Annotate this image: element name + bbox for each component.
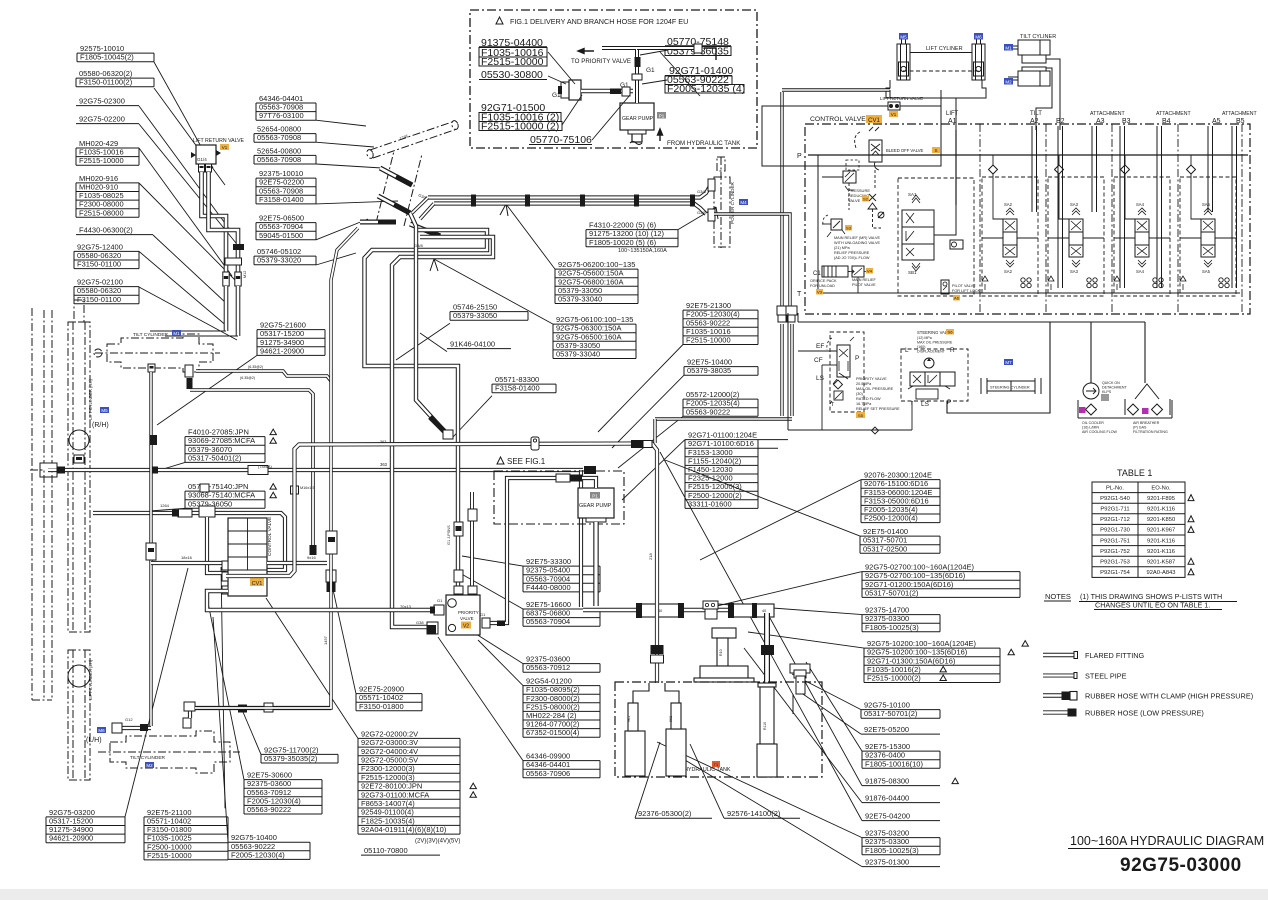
x782 fit [777, 306, 787, 315]
pipe hose v1 right [209, 172, 239, 272]
svg-text:91K46-04100: 91K46-04100 [450, 340, 495, 349]
svg-text:P1: P1 [592, 493, 598, 498]
wire SA2 hline2 [1017, 237, 1038, 239]
svg-text:94621-20900: 94621-20900 [260, 346, 304, 355]
svg-text:G3/8: G3/8 [697, 210, 706, 215]
pipe hose v1 left [202, 172, 227, 272]
f1 fit4 [622, 87, 630, 96]
svg-text:RUBBER HOSE WITH CLAMP (HIGH P: RUBBER HOSE WITH CLAMP (HIGH PRESSURE) [1085, 692, 1253, 701]
fitting f1 fit3 [558, 86, 562, 94]
svg-text:STEERING CYLINDER: STEERING CYLINDER [990, 386, 1030, 390]
svg-text:P92G1-753: P92G1-753 [1100, 560, 1130, 566]
svg-text:05379-33040: 05379-33040 [558, 295, 602, 304]
pipe pipe x150 [149, 372, 152, 726]
tee x207 [199, 506, 215, 517]
tilt cylinder schematic [1008, 40, 1050, 86]
wire sa1 to a1 [934, 205, 956, 235]
svg-text:9201-K850: 9201-K850 [1147, 517, 1175, 523]
svg-text:(6.35@2): (6.35@2) [240, 376, 255, 380]
hose fitting hf1 [380, 168, 412, 185]
wire f1 leader6 [642, 80, 667, 84]
pipe pipe y513 [93, 513, 285, 570]
fitting f1 hose blk [610, 89, 621, 95]
svg-text:FOR LIFT LOCK: FOR LIFT LOCK [952, 289, 981, 293]
svg-text:STEEL PIPE: STEEL PIPE [1085, 672, 1127, 681]
svg-text:05379-33050: 05379-33050 [453, 311, 497, 320]
extended underlines for 92G71-01100 rows [758, 439, 788, 441]
fitting coupler blk [148, 548, 154, 552]
badge M1 badge [172, 330, 181, 336]
warning triangle table tri 1 [1188, 495, 1194, 501]
svg-text:MAIN RELIEF: MAIN RELIEF [852, 278, 877, 282]
svg-text:05563-90222: 05563-90222 [686, 407, 730, 416]
svg-text:FLARED FITTING: FLARED FITTING [1085, 651, 1145, 660]
svg-text:92A0-A843: 92A0-A843 [1146, 570, 1175, 576]
svg-text:59045-01500: 59045-01500 [259, 231, 303, 240]
wire f1 leader3 [562, 95, 582, 125]
warning triangle table tri 3 [1188, 516, 1194, 522]
svg-text:T: T [797, 291, 802, 298]
svg-text:SA4: SA4 [1136, 269, 1145, 274]
svg-text:P: P [855, 355, 859, 362]
svg-text:(12) MPa: (12) MPa [917, 336, 932, 340]
svg-text:92E72-80100:JPN: 92E72-80100:JPN [361, 782, 422, 791]
svg-text:S: S [934, 148, 937, 153]
wire SA3 hline2 [1083, 237, 1104, 239]
pipe upipe1 [365, 230, 488, 592]
wire SA2 check down [993, 174, 1003, 219]
pipe hoses continue [224, 286, 229, 331]
svg-text:05379-33020: 05379-33020 [257, 256, 301, 265]
svg-text:20.5MPa: 20.5MPa [856, 382, 872, 386]
svg-text:FIG.1 DELIVERY AND BRANCH HOSE: FIG.1 DELIVERY AND BRANCH HOSE FOR 1204F… [510, 17, 688, 26]
wire B4 line b [1161, 126, 1163, 288]
wire SA5 hline2 [1215, 237, 1236, 239]
hydraulic tank outline [615, 682, 822, 777]
badge CV1 badge [250, 578, 264, 586]
svg-text:R10: R10 [719, 649, 723, 656]
label 92376-05300(2) [635, 742, 712, 818]
svg-text:C1: C1 [813, 271, 821, 277]
svg-text:L: L [905, 347, 909, 354]
label 92G75-21600 [157, 321, 325, 425]
fitting hoseA blk top [187, 378, 193, 389]
label 92G54-01200 [478, 640, 600, 737]
svg-text:FILTRATION RATING: FILTRATION RATING [1133, 430, 1168, 434]
svg-text:F1805-10016(10): F1805-10016(10) [865, 759, 923, 768]
fitting tee y470 [40, 463, 57, 469]
warning triangle table tri 8 [1188, 569, 1194, 575]
label 05572-12000(2) [618, 390, 758, 468]
wire a1 down [955, 249, 957, 293]
f1 fit5 [694, 44, 702, 53]
svg-text:ORIFICE PACK: ORIFICE PACK [810, 279, 837, 283]
svg-text:R110: R110 [763, 722, 767, 730]
svg-text:P: P [797, 153, 802, 160]
svg-text:9x16: 9x16 [307, 555, 316, 560]
wire SA3 check line [1058, 155, 1060, 165]
svg-text:05317-02500: 05317-02500 [863, 544, 907, 553]
m16 fit [291, 486, 299, 494]
svg-text:LS: LS [816, 375, 825, 382]
wire SA3 hline [1048, 237, 1069, 239]
wire mrp down [857, 277, 859, 293]
svg-text:33311-01600: 33311-01600 [688, 499, 732, 508]
pipe pipe x792 lower [790, 324, 793, 416]
badge mrp badge [866, 268, 873, 274]
svg-text:LIFT CYLINDER (LH): LIFT CYLINDER (LH) [88, 659, 93, 700]
svg-text:05563-90222: 05563-90222 [247, 805, 291, 814]
pipe pipe y610 [207, 591, 437, 610]
svg-text:TILT CYLINDER: TILT CYLINDER [130, 755, 166, 761]
svg-text:RELIEF PRESSURE: RELIEF PRESSURE [834, 251, 870, 255]
svg-text:V3: V3 [817, 289, 823, 294]
svg-text:LS: LS [921, 401, 930, 408]
hose fitting hf3 [360, 220, 396, 225]
pipe main pipe y203 [434, 204, 706, 215]
svg-text:DISPLACEMENT: DISPLACEMENT [917, 350, 946, 354]
label 92G75-10200 [748, 632, 1028, 683]
tilt port a [148, 364, 155, 372]
valve section SA5 [1201, 219, 1215, 257]
wire dash line left0 [31, 308, 33, 700]
priority valve EF/CF schematic [827, 337, 854, 384]
wire lrv down [955, 98, 957, 106]
valve section SA4 [1135, 219, 1149, 257]
clamp tag on y443 [531, 437, 539, 450]
svg-text:RELIEF SET PRESSURE: RELIEF SET PRESSURE [856, 407, 900, 411]
wire main P riser [798, 321, 1145, 323]
svg-text:(74x6A): (74x6A) [258, 464, 273, 469]
x472 fit1 [468, 509, 477, 521]
label F4310-22000 [586, 207, 716, 247]
svg-text:SA5: SA5 [1202, 269, 1211, 274]
svg-text:VALVE: VALVE [848, 198, 861, 203]
legend rubber hose low pressure [1043, 709, 1076, 716]
svg-text:V1: V1 [222, 145, 228, 150]
svg-text:TILT: TILT [1030, 111, 1042, 117]
pipe pipe x472 [470, 492, 474, 592]
svg-text:PILOT VALVE: PILOT VALVE [952, 284, 976, 288]
label 91K46-04100 [420, 333, 511, 352]
svg-text:SA2: SA2 [1004, 202, 1013, 207]
lift return valve V1 [196, 145, 216, 164]
label 92E75-16600 [458, 572, 600, 626]
wire lift dashed [903, 70, 979, 72]
coupler M62 [326, 531, 337, 554]
svg-text:GEAR PUMP: GEAR PUMP [579, 503, 612, 509]
wire SA2 hline [982, 237, 1003, 239]
svg-text:TILT CYLINER: TILT CYLINER [1020, 34, 1056, 40]
pipe pipe tilt lh [190, 708, 331, 718]
svg-text:G1/4: G1/4 [197, 157, 207, 162]
wire A1 line [955, 130, 957, 205]
wire hose elbow left [150, 330, 226, 332]
svg-text:WITH UNLOADING VALVE: WITH UNLOADING VALVE [834, 241, 881, 245]
return filter [757, 683, 777, 777]
y443 fit [643, 441, 652, 448]
legend rubber hose high pressure [1043, 692, 1077, 701]
svg-text:F1825-10035(4): F1825-10035(4) [361, 816, 415, 825]
legend flared fitting [1043, 652, 1078, 659]
svg-text:M6: M6 [98, 728, 105, 733]
cv port2 [222, 572, 228, 581]
label 92G75-03200 [46, 568, 188, 843]
wire notes2 ul [1094, 609, 1222, 611]
badge M2 badge [145, 762, 154, 768]
wire A5 line b [1212, 126, 1214, 212]
arrow from hydraulic tank [658, 129, 663, 141]
svg-text:SB1: SB1 [908, 270, 917, 275]
wire dashdot v980 [979, 124, 981, 314]
wire notes1 ul [1079, 601, 1237, 603]
wire dashdot v1242 [1241, 124, 1243, 314]
fitting f1 vert blk [635, 57, 641, 67]
pipe hose3 [410, 213, 447, 434]
x331 fit2 [326, 570, 336, 582]
svg-text:A6: A6 [954, 295, 960, 300]
fitting fit y470 b [150, 467, 158, 474]
svg-text:FOR UNLOAD: FOR UNLOAD [810, 284, 835, 288]
wire riser to breather [1144, 322, 1146, 383]
svg-text:KLPS: KLPS [1102, 390, 1112, 394]
wire SA5 check down [1191, 174, 1201, 219]
svg-text:05563-70908: 05563-70908 [257, 155, 301, 164]
label 92G75-02100 [74, 278, 237, 340]
svg-text:(160): (160) [917, 345, 925, 349]
svg-text:LIFT: LIFT [946, 111, 959, 117]
wire B2 line b [1062, 126, 1064, 288]
svg-text:M1: M1 [173, 331, 180, 336]
svg-text:PL-No.: PL-No. [1106, 485, 1124, 491]
svg-text:92G75-02300: 92G75-02300 [79, 97, 125, 106]
badge M badge rh [100, 407, 109, 413]
pilot valve lift lock [941, 280, 949, 294]
svg-text:S2: S2 [863, 196, 869, 201]
label 92375-03200 r [657, 742, 940, 855]
valve section SA3 [1069, 219, 1083, 257]
svg-text:CONTROL VALVE: CONTROL VALVE [810, 116, 866, 123]
wire A3 line b [1096, 126, 1098, 212]
badge lift badge 1 [899, 33, 908, 40]
svg-text:92376-05300(2): 92376-05300(2) [638, 809, 692, 818]
wire dash line left1 [43, 310, 45, 700]
svg-text:M7: M7 [1005, 360, 1012, 365]
lift cylinder R/H [68, 300, 90, 632]
svg-text:16.7MPa: 16.7MPa [856, 402, 872, 406]
svg-text:F1805-10020 (5) (6): F1805-10020 (5) (6) [589, 238, 657, 247]
label 92575-10010 [77, 44, 213, 168]
wire hose elbow right [165, 335, 238, 337]
wire A2 line b [1036, 126, 1038, 212]
fitting sv blk [761, 645, 774, 655]
badge V2 badge [461, 622, 471, 629]
badge c1 badge [816, 289, 823, 295]
svg-text:TO PRIORITY VALVE: TO PRIORITY VALVE [571, 58, 631, 65]
label 05580-06320(2) [76, 69, 225, 185]
label 92E75-10400 [612, 358, 758, 448]
coupler x150 [146, 543, 156, 560]
label 92076-20300 [700, 471, 940, 560]
svg-text:05563-70912: 05563-70912 [526, 663, 570, 672]
svg-text:HYDRAULIC TANK: HYDRAULIC TANK [684, 767, 731, 773]
svg-text:P92G1-712: P92G1-712 [1100, 517, 1130, 523]
label 91876-04400 [744, 648, 940, 803]
svg-text:MAX OIL PRESSURE: MAX OIL PRESSURE [856, 387, 894, 391]
svg-text:VALVE: VALVE [460, 616, 474, 621]
pipe pipe y470 [48, 468, 583, 472]
fitting x458 blk [456, 526, 462, 531]
wire B3 line b [1124, 126, 1126, 288]
air breather [1125, 399, 1170, 415]
badge V1 [220, 144, 229, 150]
svg-text:LIFT CYLINER: LIFT CYLINER [926, 46, 963, 52]
fitting fit y470 a [57, 467, 65, 474]
wire B4 line a [1156, 126, 1158, 288]
union [225, 258, 242, 265]
label 92E75-06500 [256, 214, 368, 240]
hose fitting hf2 [378, 196, 410, 213]
label F4010-27085 [160, 428, 276, 470]
svg-text:LIFT RETURN VALVE: LIFT RETURN VALVE [193, 138, 245, 144]
svg-text:AIR BREATHER: AIR BREATHER [1133, 421, 1160, 425]
wire title ul [1068, 848, 1240, 850]
svg-text:92G75-02200: 92G75-02200 [79, 115, 125, 124]
wire SA4 hline [1114, 237, 1135, 239]
svg-text:9201-K116: 9201-K116 [1147, 507, 1175, 513]
svg-text:PRIORITY VALVE: PRIORITY VALVE [856, 377, 887, 381]
label 52654-00800 b [254, 125, 374, 147]
wire ef down [787, 351, 789, 430]
wire P line [808, 154, 1248, 156]
svg-text:F1805-10045(2): F1805-10045(2) [80, 53, 134, 62]
svg-text:M4: M4 [740, 200, 747, 205]
svg-text:CV1: CV1 [868, 118, 880, 124]
svg-text:40: 40 [762, 609, 766, 613]
wire steer T [911, 401, 913, 430]
valve section SA2 [1003, 219, 1017, 257]
pipe suction vert [764, 613, 770, 683]
v1 fitting b [206, 164, 212, 172]
badge lift badge 2 [974, 33, 983, 40]
svg-text:G3/8: G3/8 [414, 243, 423, 248]
label MH020-429 [76, 139, 232, 276]
fitting rv blk2 [651, 655, 664, 663]
fitting clamp 634a [634, 195, 639, 207]
control valve CV1 block [228, 518, 267, 596]
svg-text:9201-K587: 9201-K587 [1147, 560, 1175, 566]
svg-text:RATED FLOW: RATED FLOW [856, 397, 881, 401]
svg-text:(21) MPa: (21) MPa [834, 246, 851, 250]
svg-text:LIFT CYLINDER (RH): LIFT CYLINDER (RH) [88, 379, 93, 420]
svg-text:9K1: 9K1 [627, 716, 631, 722]
wire A5 line a [1207, 126, 1209, 212]
wire lift connect top [910, 52, 972, 54]
svg-text:05563-70906: 05563-70906 [526, 769, 570, 778]
svg-text:MAIN RELIEF (MR) VALVE: MAIN RELIEF (MR) VALVE [834, 236, 881, 240]
label 92G75-11700(2) [243, 712, 338, 763]
label 92G75-02700 [700, 563, 1020, 610]
fitting lift rh blk [76, 457, 82, 460]
badge v1 schem badge [889, 111, 898, 117]
wire tilt line r2 [1036, 68, 1052, 130]
wire cf line [822, 364, 837, 366]
badge prv badge [862, 196, 869, 202]
label 92375-01300 [680, 757, 940, 867]
label 92375-03600 [476, 634, 600, 672]
svg-text:100~135150A,160A: 100~135150A,160A [618, 248, 667, 254]
badge M4 badge [739, 199, 748, 205]
elbow tiltlh [184, 702, 195, 711]
fitting fit y470 d [584, 466, 596, 474]
wire cv T down1 [787, 313, 789, 430]
badge ab badge [1142, 408, 1149, 414]
svg-text:ATTACHMENT: ATTACHMENT [1090, 111, 1126, 117]
pipe suction pipe [593, 522, 598, 606]
svg-text:97T76-03100: 97T76-03100 [259, 111, 304, 120]
main relief valve MR [831, 219, 842, 230]
label 05770-75140 [150, 482, 276, 511]
svg-text:05563-70904: 05563-70904 [526, 617, 570, 626]
fitting clamp 690a [690, 195, 695, 207]
wire tilt conn down [1059, 125, 1061, 130]
badge prio badge [856, 412, 865, 418]
label 05571-83300 [453, 375, 556, 437]
label 92E75-20900 [330, 576, 422, 711]
badge oc badge [1079, 407, 1086, 413]
svg-text:F2300-12000(3): F2300-12000(3) [361, 764, 415, 773]
label 92G75-10100 [792, 674, 940, 718]
wire B2 line a [1057, 126, 1059, 288]
svg-text:SEE FIG.1: SEE FIG.1 [507, 457, 546, 466]
wire cf vert [821, 365, 823, 430]
orifice pack C1 [822, 266, 848, 277]
main relief pilot valve [852, 266, 864, 277]
svg-text:G1: G1 [480, 612, 486, 617]
svg-text:F2515-10000: F2515-10000 [147, 851, 192, 860]
wire bov down [874, 170, 876, 190]
svg-text:M6: M6 [975, 34, 982, 39]
wire dash across [30, 469, 44, 471]
badge sv badge [946, 329, 954, 335]
label 92G75-02200 [76, 115, 236, 243]
wire drain line [792, 694, 794, 714]
label 92G75-02300 [76, 97, 230, 230]
svg-text:EF: EF [816, 343, 824, 350]
priority valve V2 [446, 595, 480, 635]
label 92G75-12400 [74, 242, 228, 327]
f1 fit2 [569, 80, 581, 100]
svg-text:F3150-01100(2): F3150-01100(2) [79, 78, 133, 87]
bleed off valve [869, 140, 882, 162]
f1 fit1 [561, 82, 569, 98]
label 64346-09900 [438, 637, 600, 778]
wire SA2 check line [992, 155, 994, 165]
fitting pv right blk [497, 621, 505, 627]
badge sc badge [1004, 359, 1013, 365]
svg-text:PILOT VALVE: PILOT VALVE [852, 283, 876, 287]
svg-text:BLEED OFF VALVE: BLEED OFF VALVE [886, 148, 924, 153]
pipe pipe x156 branch [157, 560, 222, 563]
lift cylinder base bracket [886, 80, 986, 98]
label 92G75-06200 [506, 204, 638, 304]
label 05746-05102 [254, 247, 356, 265]
wire SA5 check line [1190, 155, 1192, 165]
label 92E75-15300 [806, 662, 940, 768]
label 92E75-05200 [800, 692, 940, 734]
pc port2 [708, 209, 715, 221]
pipe pipe x207 down [207, 517, 226, 573]
